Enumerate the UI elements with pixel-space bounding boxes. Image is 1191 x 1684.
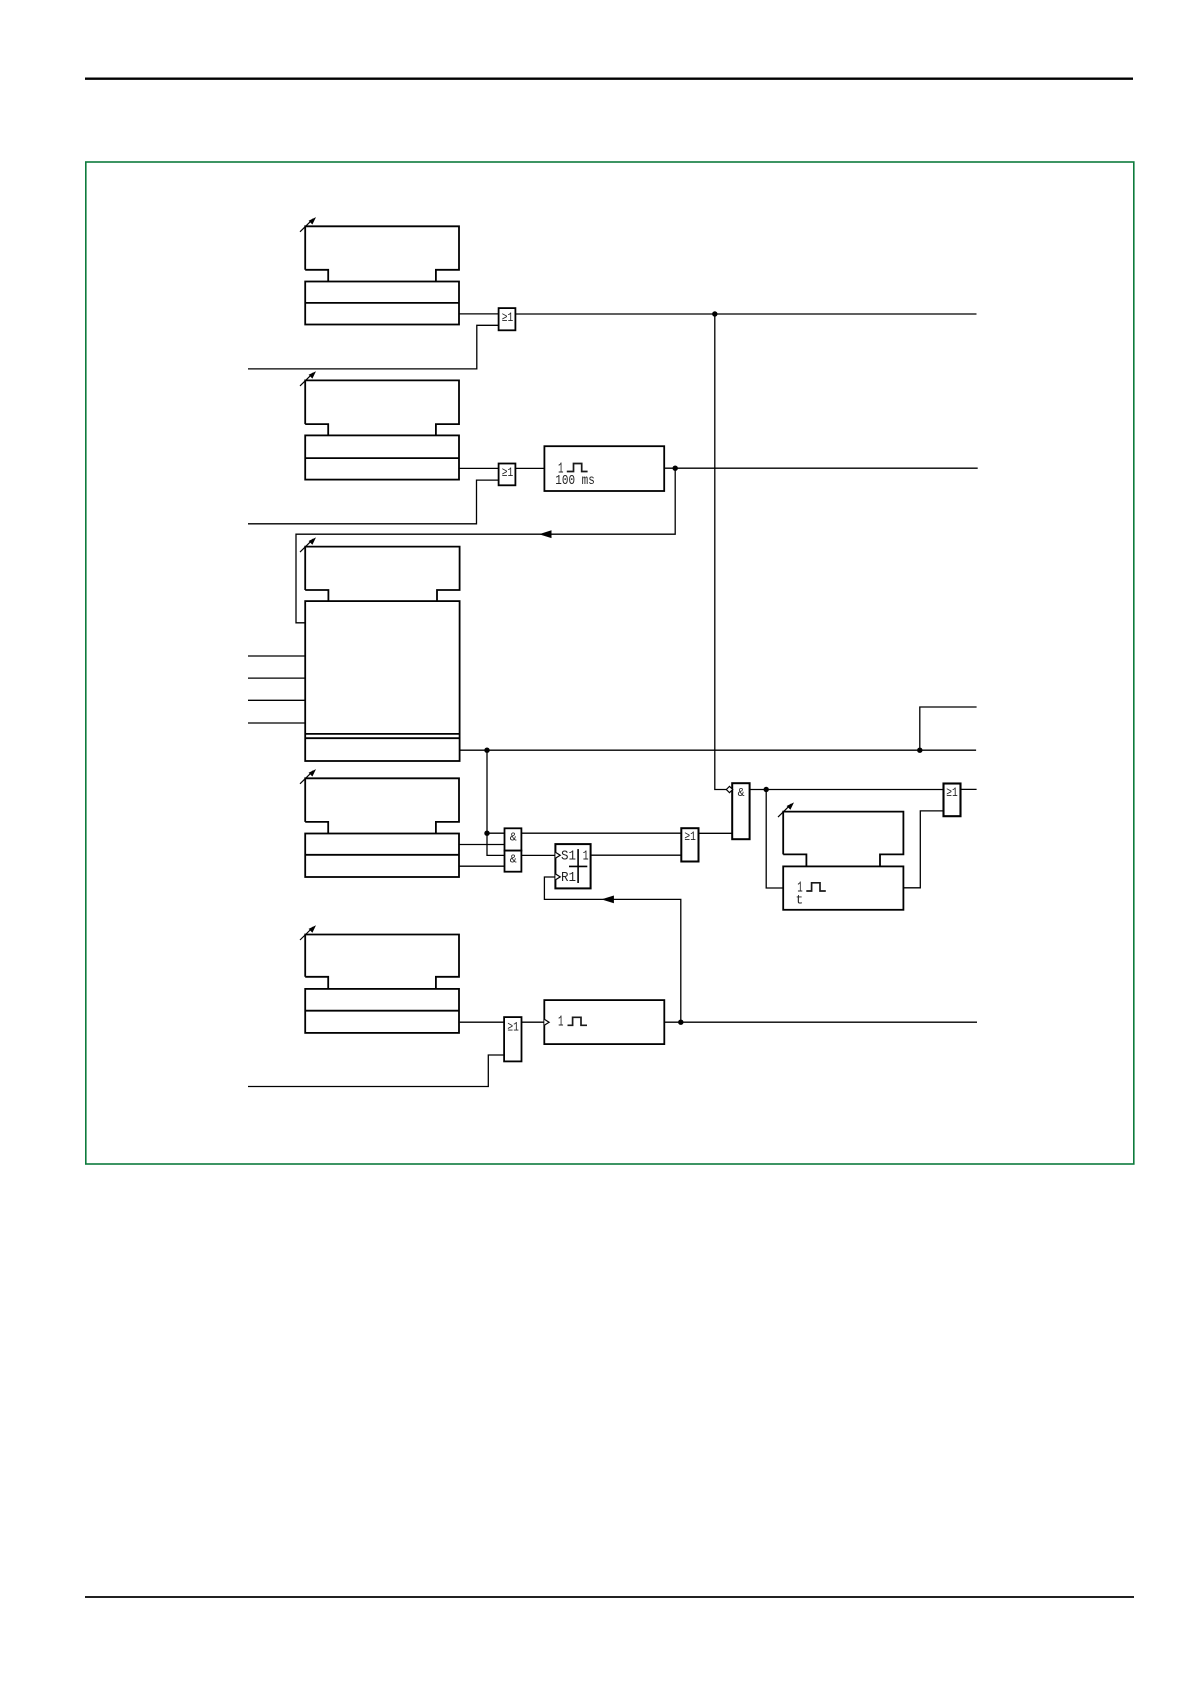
wire OR U9 out to pulse T2 xyxy=(522,1021,545,1023)
block B3 logic element (large lower box) xyxy=(305,601,459,761)
wire block4 row2 out xyxy=(459,865,505,867)
svg-text:S1: S1 xyxy=(561,849,576,865)
svg-text:≥1: ≥1 xyxy=(946,785,958,800)
junction dot J2 xyxy=(673,466,678,471)
block B5 setting element (upper, adjustable) xyxy=(305,935,459,989)
flow arrowhead on R1 feedback wire xyxy=(601,896,614,904)
timer block T3 setting element (upper, adjustable) xyxy=(783,812,903,867)
wire block3 input stub 4 xyxy=(248,722,305,724)
svg-text:R1: R1 xyxy=(561,870,576,886)
OR gate U1 xyxy=(499,308,516,330)
AND gate U6 xyxy=(505,851,522,872)
wire SR out to OR U4 xyxy=(591,854,682,856)
OR gate U8 xyxy=(944,784,961,817)
wire block1 out to OR U1 xyxy=(459,313,499,315)
wire pulse T2 output bus xyxy=(664,1021,977,1023)
wire block3 input stub 2 xyxy=(248,677,305,679)
block B2 setting element (upper, adjustable) xyxy=(305,380,459,435)
wire OR U8 output xyxy=(961,788,977,790)
wire OR U9 input2 from left xyxy=(248,1055,504,1087)
adjust arrow on B3 xyxy=(300,537,316,552)
svg-text:100 ms: 100 ms xyxy=(555,473,595,489)
svg-text:1: 1 xyxy=(583,849,589,865)
wire block2 out to OR U2 xyxy=(459,467,499,469)
adjust arrow on B5 xyxy=(300,925,316,940)
block B4 setting element (upper, adjustable) xyxy=(305,778,459,833)
wire block3 input stub 3 xyxy=(248,699,305,701)
dynamic input diamond on U7 xyxy=(726,786,732,792)
wire block3 input stub 1 xyxy=(248,655,305,657)
wire branch down to timer T3 xyxy=(766,790,783,889)
junction dot J3 xyxy=(484,748,489,753)
adjust arrow on B1 xyxy=(300,217,316,232)
block B1 measuring element (lower) xyxy=(305,282,459,325)
wire branch up to output 2 xyxy=(920,707,977,750)
block B1 setting element (upper, adjustable) xyxy=(305,226,459,281)
wire OR U1 output bus xyxy=(515,313,976,315)
flow arrowhead on feedback wire to block3 xyxy=(539,530,552,538)
svg-text:1: 1 xyxy=(558,1014,564,1031)
wire node J1 vertical to AND U7 xyxy=(715,314,732,790)
wire block4 row1 out xyxy=(459,844,505,846)
junction dot J1 xyxy=(712,311,717,316)
junction dot J4 xyxy=(917,748,922,753)
svg-text:≥1: ≥1 xyxy=(684,829,696,844)
wire AND U5 out to OR U4 xyxy=(521,832,681,834)
wire branch into AND U6 xyxy=(487,833,505,855)
wire OR U1 input2 from left xyxy=(248,325,499,369)
junction dot J6 xyxy=(764,787,769,792)
wire OR U2 input2 from left xyxy=(248,480,499,524)
adjust arrow on T3 xyxy=(778,802,794,817)
pulse block T2 xyxy=(544,1000,664,1044)
SR flip-flop U3 xyxy=(555,844,590,888)
AND gate U7 xyxy=(732,783,749,839)
AND gate U5 xyxy=(505,828,522,850)
OR gate U9 xyxy=(504,1017,521,1061)
pulse block T1 (100 ms) xyxy=(544,446,664,491)
svg-text:&: & xyxy=(738,787,745,800)
svg-text:≥1: ≥1 xyxy=(502,465,514,480)
block B2 measuring element (lower) xyxy=(305,435,459,479)
footer rule xyxy=(85,1596,1134,1598)
svg-text:&: & xyxy=(510,853,517,866)
wire timer T3 out to OR U8 xyxy=(903,811,943,888)
svg-text:&: & xyxy=(510,831,517,844)
block B5 measuring element (lower) xyxy=(305,989,459,1033)
adjust arrow on B4 xyxy=(300,769,316,784)
wire feedback from T1 to block3 xyxy=(296,468,675,623)
adjust arrow on B2 xyxy=(300,371,316,386)
block B4 measuring element (lower) xyxy=(305,834,459,878)
OR gate U4 xyxy=(681,828,698,861)
timer block T3 (lower, t) xyxy=(783,866,903,909)
wire pulse T2 up to SR R1 xyxy=(544,877,680,1022)
wire block5 out to OR U9 xyxy=(460,1021,504,1023)
svg-text:≥1: ≥1 xyxy=(502,310,514,325)
wire block3 output bus xyxy=(460,749,977,751)
figure frame (green) xyxy=(86,162,1134,1164)
junction dot J5 xyxy=(484,831,489,836)
svg-text:≥1: ≥1 xyxy=(507,1020,519,1035)
svg-text:t: t xyxy=(796,893,804,908)
wire AND U6 out to SR S1 xyxy=(521,854,555,856)
block B3 setting element (upper, adjustable) xyxy=(305,547,459,602)
junction dot J7 xyxy=(678,1020,683,1025)
wire OR U4 out to AND U7 xyxy=(699,832,733,834)
header rule xyxy=(85,77,1133,79)
OR gate U2 xyxy=(499,464,516,486)
wire pulse T1 output bus xyxy=(664,467,978,469)
wire OR U2 out to pulse T1 xyxy=(515,467,544,469)
wire AND U7 out to OR U8 xyxy=(750,789,944,791)
wire block3 out down to AND U5/U6 xyxy=(487,750,505,833)
